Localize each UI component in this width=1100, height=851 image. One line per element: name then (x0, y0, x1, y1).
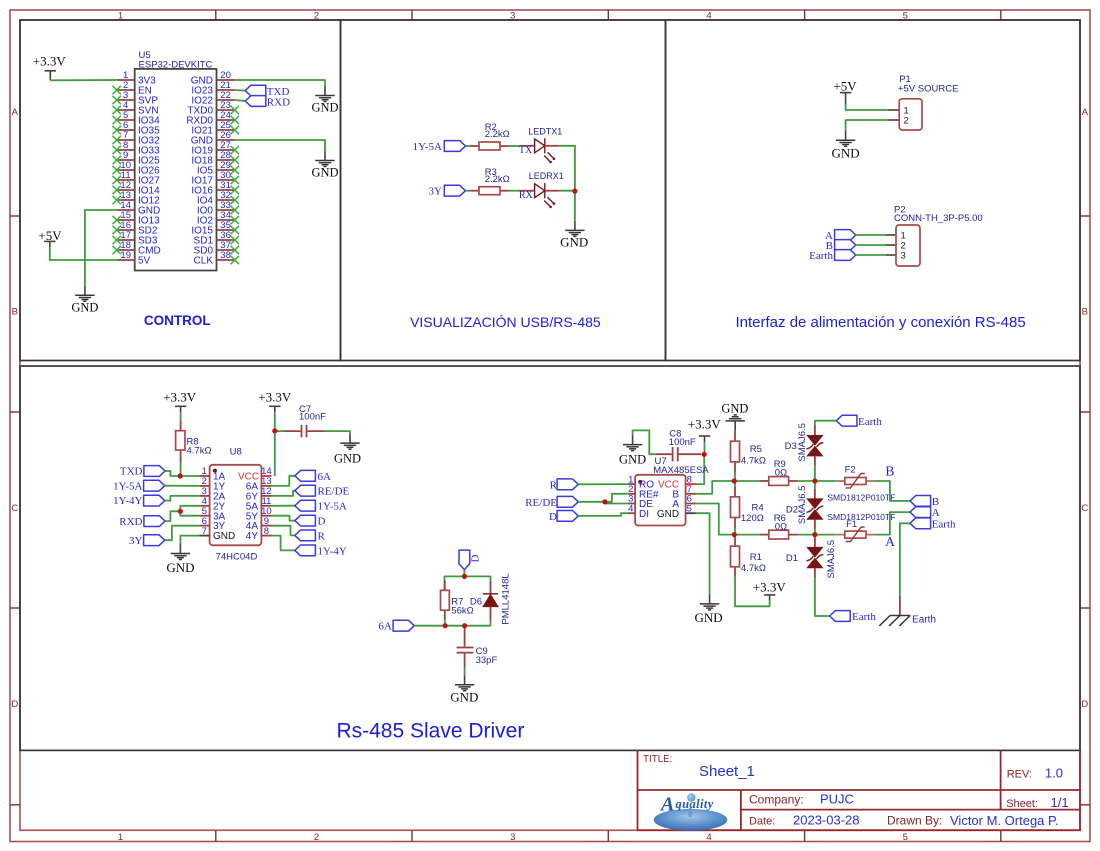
ground (C9) (450, 675, 478, 704)
svg-text:D: D (549, 511, 557, 523)
wire C8 node to U7 pin8 (696, 454, 704, 484)
U8 pin 10 (246, 506, 272, 522)
wire R1 to A line (734, 535, 736, 536)
U5 pin 35 IO15 (191, 220, 234, 236)
svg-text:120Ω: 120Ω (741, 513, 764, 524)
svg-text:Earth: Earth (852, 611, 876, 623)
svg-text:A: A (12, 107, 19, 118)
wire F1 to A output (875, 512, 910, 535)
svg-text:1Y-4Y: 1Y-4Y (113, 495, 142, 507)
junction B line R5 (732, 478, 737, 483)
ground (U5 pin14) (71, 286, 98, 315)
U7 pin 8 VCC (658, 474, 696, 490)
U5 pin 33 IO0 (197, 200, 235, 216)
wire P1 pin2 to ground (846, 120, 888, 131)
svg-text:D: D (318, 516, 326, 528)
junction RE/DE (602, 499, 607, 504)
wire A to P2 pin1 (856, 234, 886, 236)
svg-text:GND: GND (657, 509, 679, 520)
global label D (U8 out) (295, 515, 326, 527)
svg-text:RXD: RXD (119, 516, 142, 528)
svg-text:5: 5 (903, 832, 908, 843)
CONTROL section box (20, 20, 341, 361)
wire U5 pin21 to TXD label (235, 89, 245, 92)
wire R2 to LEDTX1 (509, 145, 520, 147)
svg-text:+3.3V: +3.3V (163, 390, 197, 405)
svg-text:3: 3 (901, 251, 906, 262)
svg-text:74HC04D: 74HC04D (216, 552, 258, 563)
wire F2 to B output (875, 481, 910, 501)
wire watchdog top rail (445, 576, 491, 590)
global label A (P2) (825, 230, 856, 242)
wire R8 to TXD net (180, 462, 182, 476)
global label A (output) (910, 507, 940, 520)
svg-text:RE/DE: RE/DE (525, 497, 557, 509)
ground (LED rail) (560, 221, 588, 250)
U5 pin 10 no-connect (113, 166, 121, 174)
svg-text:GND: GND (311, 165, 338, 179)
wire +3.3V to C7 node (274, 412, 276, 431)
wire U5 pin14 to ground (85, 210, 117, 286)
svg-text:ESP32-DEVKITC: ESP32-DEVKITC (139, 59, 213, 70)
svg-text:GND: GND (619, 452, 646, 466)
U5 pin 38 CLK (194, 250, 235, 266)
svg-text:+3.3V: +3.3V (688, 417, 722, 432)
capacitor C7 100nF (275, 404, 326, 437)
wire R6 to D2 node (798, 534, 815, 536)
led LEDTX1 TX (519, 126, 562, 163)
svg-text:+3.3V: +3.3V (33, 54, 67, 69)
frame tick bottom 2 (411, 830, 413, 841)
svg-text:GND: GND (166, 560, 194, 575)
svg-text:8: 8 (264, 526, 269, 537)
svg-text:100nF: 100nF (299, 411, 326, 422)
svg-text:GND: GND (695, 610, 723, 625)
wire U7 pin7 to B line (696, 481, 734, 494)
svg-text:GND: GND (721, 401, 748, 415)
wire U8 pin4 to pin5 net (180, 506, 199, 516)
svg-text:4: 4 (628, 503, 633, 514)
resistor R9 0ohm (760, 459, 798, 486)
U5 pin 36 SD1 (194, 230, 235, 246)
wire U8 pin 13 to 6A label (272, 476, 295, 486)
junction C8 node (702, 452, 707, 457)
U5 pin 3 no-connect (113, 96, 121, 104)
svg-text:MAX485ESA: MAX485ESA (653, 465, 709, 476)
svg-text:D1: D1 (786, 553, 798, 564)
resistor R4 120ohm (731, 487, 764, 528)
wire +5V to U5 pin19 (50, 247, 117, 260)
frame tick left A (10, 215, 20, 217)
global label RXD (245, 96, 290, 109)
svg-text:6A: 6A (318, 471, 332, 483)
U5 pin 20 GND (191, 70, 235, 86)
U5 pin 23 TXD0 (187, 100, 234, 116)
junction LED ground rail (572, 189, 577, 194)
power +5V (U5 pin19) (38, 228, 62, 247)
wire TXD to U8 pin1 (165, 471, 199, 476)
U5 pin 6 no-connect (113, 126, 121, 134)
resistor R7 56k (441, 580, 474, 620)
svg-text:CONN-TH_3P-P5.00: CONN-TH_3P-P5.00 (894, 213, 983, 224)
svg-text:GND: GND (213, 531, 235, 542)
U5 pin 30 IO17 (191, 170, 234, 186)
U5 pin 15 IO13 (117, 210, 160, 226)
capacitor C9 33pF (457, 626, 498, 669)
global label TXD (U8) (120, 466, 165, 478)
U8 pin 14 (261, 466, 272, 477)
junction B line D3 (812, 478, 817, 483)
resistor R1 4.7k (731, 536, 766, 577)
svg-text:LEDRX1: LEDRX1 (529, 171, 564, 181)
wire Earth output to earth ground (900, 523, 910, 596)
svg-text:C: C (1081, 503, 1088, 514)
wire U8 pin 8 to 1Y-4Y label (272, 536, 295, 551)
U5 pin 34 IO2 (197, 210, 235, 226)
svg-text:R1: R1 (750, 552, 762, 563)
svg-text:B: B (885, 464, 894, 479)
svg-text:VISUALIZACIÓN USB/RS-485: VISUALIZACIÓN USB/RS-485 (410, 314, 601, 330)
junction A line R4 (732, 532, 737, 537)
global label 6A (watchdog) (378, 620, 414, 632)
U8 pin 12 (246, 486, 272, 502)
svg-text:TITLE:: TITLE: (643, 754, 672, 765)
global label R (U8 out) (295, 530, 326, 542)
svg-text:SMAJ6.5: SMAJ6.5 (797, 486, 808, 525)
svg-text:GND: GND (334, 451, 361, 465)
wire B line to R9 (734, 480, 760, 482)
ground (P1) (832, 131, 860, 161)
wire R9 to D3 node (798, 480, 815, 482)
svg-text:100nF: 100nF (669, 437, 696, 448)
wire C7 to ground (325, 431, 351, 434)
U5 pin 4 SVN (117, 100, 159, 116)
global label Earth (D1 bottom) (830, 611, 877, 624)
U7 pin 1 RO (628, 474, 654, 490)
wire LEDTX1 to ground rail (559, 146, 575, 221)
wire LEDRX1 to ground rail (559, 190, 575, 192)
U7 pin 7 B (672, 484, 695, 500)
U5 pin 31 IO16 (191, 180, 234, 196)
U8 pin 6 3Y (200, 516, 226, 532)
svg-text:Sheet:: Sheet: (1006, 798, 1038, 810)
wire R to U7 pin1 (578, 483, 628, 485)
fuse F2 SMD1812P010TF (836, 464, 875, 488)
frame tick top 1 (215, 10, 217, 20)
svg-text:R: R (318, 530, 326, 542)
svg-text:2: 2 (314, 832, 319, 843)
frame tick bottom 1 (215, 830, 217, 841)
U5 pin 8 IO33 (117, 140, 160, 156)
junction R8/TXD (178, 473, 183, 478)
svg-text:19: 19 (120, 250, 131, 261)
svg-text:B: B (1082, 306, 1088, 317)
global label R (U7 RO) (550, 479, 579, 491)
earth ground symbol (879, 596, 936, 626)
U5 pin 30 no-connect (231, 176, 239, 184)
U5 pin 2 EN (117, 80, 152, 96)
wire D3 to B line (814, 466, 816, 481)
ground (C7) (334, 434, 361, 466)
svg-text:+3.3V: +3.3V (753, 579, 787, 594)
U5 pin 5 no-connect (113, 116, 121, 124)
U5 pin 25 IO21 (191, 120, 234, 136)
wire C8 ground loop (633, 430, 656, 454)
U5 pin 37 SD0 (194, 240, 235, 256)
svg-text:U8: U8 (230, 446, 242, 457)
global label B (P2) (826, 240, 856, 252)
U5 pin 25 no-connect (231, 126, 239, 134)
U8 pin 13 (246, 476, 272, 492)
svg-text:quality: quality (676, 797, 714, 811)
svg-text:2023-03-28: 2023-03-28 (793, 812, 860, 827)
U5 pin 27 no-connect (231, 146, 239, 154)
U5 pin 9 IO25 (117, 150, 160, 166)
wire U8 pin 10 to D label (272, 516, 295, 521)
junction C7 node (272, 428, 277, 433)
svg-text:GND: GND (560, 235, 588, 250)
global label Earth (D3 top) (836, 415, 882, 428)
svg-text:Rs-485 Slave Driver: Rs-485 Slave Driver (336, 720, 524, 743)
U5 pin 1 3V3 (117, 70, 157, 86)
frame tick right C (1080, 607, 1090, 609)
svg-text:PMLL4148L: PMLL4148L (501, 573, 512, 624)
svg-text:Earth: Earth (932, 518, 956, 530)
U5 pin 29 IO5 (197, 160, 235, 176)
wire Earth to D3 (815, 421, 836, 426)
global label 1Y-5A (U8 out) (295, 500, 347, 512)
U8 pin 11 (246, 496, 272, 512)
global label 1Y-5A (U8 pin2) (113, 480, 165, 492)
svg-text:7: 7 (202, 526, 207, 537)
U5 pin 37 no-connect (231, 246, 239, 254)
U8 pin 9 (246, 516, 272, 532)
tvs diode D2 SMAJ6.5 (786, 481, 823, 529)
U5 pin 27 IO19 (191, 140, 234, 156)
U5 pin 15 no-connect (113, 216, 121, 224)
U5 pin 18 CMD (117, 240, 161, 256)
svg-text:C: C (11, 503, 18, 514)
svg-text:SMAJ6.5: SMAJ6.5 (797, 423, 808, 462)
ground (R5 top, flipped) (721, 401, 748, 430)
wire U8 pin 9 to R label (272, 526, 295, 536)
svg-text:2: 2 (904, 116, 909, 127)
svg-text:4.7kΩ: 4.7kΩ (741, 456, 766, 467)
junction C9 top (462, 623, 467, 628)
svg-text:Drawn By:: Drawn By: (887, 813, 942, 827)
U5 pin 17 SD3 (117, 230, 158, 246)
svg-text:SMD1812P010TF: SMD1812P010TF (827, 512, 895, 522)
global label RE/DE (U8 out) (295, 485, 350, 497)
wire watchdog bottom rail (414, 625, 490, 627)
wire 1Y-4Y to U8 pin3 (165, 496, 200, 501)
resistor R2 2.2k (471, 122, 510, 150)
global label RE/DE (U7) (525, 496, 578, 508)
wire C9 to ground (464, 669, 466, 676)
ground (U7 pin5) (695, 594, 723, 624)
U5 pin 7 IO32 (117, 130, 160, 146)
svg-text:Company:: Company: (749, 792, 804, 806)
svg-text:+3.3V: +3.3V (258, 390, 292, 405)
U5 pin 34 no-connect (231, 216, 239, 224)
svg-text:A: A (1082, 107, 1089, 118)
svg-text:38: 38 (220, 250, 231, 261)
U8 pin 2 1Y (200, 476, 226, 492)
led LEDRX1 RX (519, 171, 564, 208)
wire D label to rail (463, 570, 465, 577)
U5 pin 8 no-connect (113, 146, 121, 154)
svg-text:D3: D3 (785, 441, 797, 452)
svg-text:SMAJ6.5: SMAJ6.5 (826, 540, 837, 579)
svg-text:D: D (11, 699, 18, 710)
svg-text:6A: 6A (378, 621, 392, 633)
U5 pin 29 no-connect (231, 166, 239, 174)
U5 pin 28 no-connect (231, 156, 239, 164)
U5 pin 24 no-connect (231, 116, 239, 124)
svg-text:1Y-4Y: 1Y-4Y (318, 545, 347, 557)
frame tick right A (1080, 215, 1090, 217)
svg-text:4.7kΩ: 4.7kΩ (741, 563, 766, 574)
power +3.3V (R1 bottom, flipped) (753, 579, 787, 600)
junction R7 bottom (443, 623, 448, 628)
U5 pin 13 IO12 (117, 190, 160, 206)
ic U8 74HC04D body (210, 465, 262, 546)
wire A line D2 to F1 (815, 534, 836, 536)
wire C7 node to U8 pin14 (274, 431, 276, 476)
svg-text:GND: GND (450, 690, 478, 705)
global label 6A (U8 out) (295, 470, 331, 482)
frame tick right D (1080, 804, 1090, 806)
junction RXD/2Y (178, 509, 183, 514)
tvs diode D3 SMAJ6.5 (785, 423, 824, 466)
svg-text:REV:: REV: (1007, 768, 1032, 780)
svg-text:R4: R4 (752, 502, 764, 513)
U7 pin 2 RE# (628, 484, 659, 500)
U8 pin 3 2A (200, 486, 226, 502)
U7 pin 4 DI (628, 503, 649, 519)
svg-text:DI: DI (639, 509, 649, 520)
U5 pin 10 IO26 (117, 160, 160, 176)
U5 pin 13 no-connect (113, 196, 121, 204)
svg-text:F2: F2 (845, 464, 856, 475)
wire +3.3V to U5 pin1 (50, 79, 116, 81)
U5 pin 9 no-connect (113, 156, 121, 164)
U5 pin 18 no-connect (113, 246, 121, 254)
power +3.3V (U5 pin1) (33, 54, 67, 81)
U5 pin 38 no-connect (231, 256, 239, 264)
svg-text:A: A (885, 534, 895, 549)
diode D6 PMLL4148L (470, 573, 512, 624)
U5 pin 23 no-connect (231, 106, 239, 114)
global label 3Y (R3 input) (429, 185, 466, 197)
U8 pin 8 (246, 526, 272, 542)
title block outline (638, 750, 1081, 830)
resistor R5 4.7k (731, 430, 766, 472)
svg-text:Interfaz de alimentación y con: Interfaz de alimentación y conexión RS-4… (736, 314, 1026, 331)
U5 pin 19 5V (117, 250, 151, 266)
svg-text:4Y: 4Y (246, 531, 259, 542)
U5 pin 7 no-connect (113, 136, 121, 144)
wire +5V to P1 pin1 (846, 104, 888, 110)
svg-text:Sheet_1: Sheet_1 (699, 763, 755, 780)
svg-text:D6: D6 (470, 596, 482, 607)
RS-485 driver section box (20, 366, 1080, 750)
ground (C8 left) (619, 435, 646, 466)
wire D to U7 pin4 (578, 513, 628, 516)
wire U7 pin6 to A line (696, 504, 734, 535)
power +3.3V (U7 VCC) (688, 417, 722, 442)
svg-text:A: A (932, 507, 940, 519)
U5 pin 17 no-connect (113, 236, 121, 244)
frame tick right B (1080, 411, 1090, 413)
global label RXD (U8) (119, 516, 165, 528)
global label B (output) (910, 496, 939, 509)
svg-text:1: 1 (118, 832, 123, 843)
U5 pin 22 IO22 (191, 90, 234, 106)
U5 pin 32 IO4 (197, 190, 235, 206)
svg-text:1Y-5A: 1Y-5A (413, 141, 442, 153)
junction A line D2 (812, 532, 817, 537)
svg-text:RX: RX (519, 190, 534, 201)
wire 3Y to U8 pin6 (165, 526, 200, 541)
svg-text:+5V: +5V (833, 79, 857, 94)
U5 pin 12 no-connect (113, 186, 121, 194)
resistor R8 4.7k (176, 421, 212, 462)
svg-text:B: B (12, 306, 18, 317)
svg-text:RXD: RXD (267, 96, 290, 108)
U5 pin 16 no-connect (113, 226, 121, 234)
wire B line D3 to F2 (815, 480, 836, 482)
svg-text:GND: GND (71, 301, 98, 315)
tvs diode D1 SMAJ6.5 (786, 535, 837, 579)
svg-text:1Y-5A: 1Y-5A (318, 501, 347, 513)
wire A line to R6 (734, 534, 760, 536)
ic U5 ESP32-DEVKITC body (135, 69, 217, 271)
U5 pin 12 IO14 (117, 180, 160, 196)
wire +3.3V to C8 node (704, 442, 706, 454)
global label TXD (245, 85, 289, 98)
global label 3Y (U8 pin6) (129, 535, 165, 547)
global label Earth (output) (910, 518, 956, 531)
svg-text:TX: TX (519, 145, 533, 156)
svg-text:Date:: Date: (749, 815, 775, 827)
frame tick top 5 (1000, 10, 1002, 20)
wire D6 to bottom rail (490, 621, 492, 626)
wire D2 to A line (814, 529, 816, 534)
svg-text:A: A (659, 794, 674, 816)
U7 pin 3 DE (628, 494, 653, 510)
svg-text:TXD: TXD (120, 466, 143, 478)
svg-text:0Ω: 0Ω (775, 467, 787, 478)
svg-text:5V: 5V (138, 255, 151, 266)
U8 pin 7 GND (200, 526, 236, 542)
power +3.3V (R8 pull-up) (163, 390, 197, 413)
capacitor C8 100nF (656, 428, 701, 461)
wire 1Y-5A to R2 (466, 145, 471, 147)
wire R4 to A line (734, 528, 736, 535)
ground (U5 pin26) (311, 151, 338, 179)
U5 pin 31 no-connect (231, 186, 239, 194)
svg-text:GND: GND (311, 100, 338, 114)
wire 3Y to R3 (466, 190, 471, 192)
global label Earth (P2) (809, 250, 856, 262)
company logo Aquality (654, 793, 728, 830)
wire R7 to bottom rail (444, 620, 446, 626)
global label 1Y-4Y (U8 out) (295, 545, 347, 557)
ground (U8 pin7) (166, 544, 194, 575)
resistor R3 2.2k (471, 167, 510, 195)
svg-text:2.2kΩ: 2.2kΩ (485, 174, 510, 185)
